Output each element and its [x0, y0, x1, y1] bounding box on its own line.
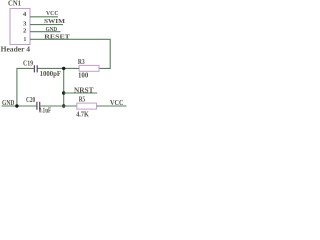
wire pin 3 to SWIM — [30, 24, 63, 26]
vertical bus wire NRST — [63, 68, 65, 106]
wire GND rail middle segment C20 to R5 — [40, 105, 77, 107]
svg-text:VCC: VCC — [110, 100, 124, 107]
junction node GND rail / C19 branch — [15, 104, 18, 107]
wire R5 to VCC — [97, 105, 127, 107]
svg-text:RESET: RESET — [44, 34, 70, 41]
wire C19 to R3 through node — [37, 67, 79, 69]
svg-text:100: 100 — [78, 73, 89, 80]
junction node at C19/R3 row — [62, 67, 65, 70]
wire NRST stub — [64, 92, 97, 94]
resistor R3 body — [79, 65, 99, 71]
svg-text:CN1: CN1 — [8, 0, 22, 7]
connector CN1 body — [10, 9, 30, 45]
svg-text:GND: GND — [2, 99, 14, 107]
wire pin 1 RESET to R3 — [30, 39, 110, 68]
svg-text:1: 1 — [24, 36, 27, 43]
capacitor C19 plates — [34, 65, 37, 72]
wire pin 4 to VCC — [30, 16, 58, 18]
svg-text:VCC: VCC — [46, 10, 59, 17]
svg-text:R3: R3 — [78, 59, 85, 66]
svg-text:C19: C19 — [23, 60, 34, 67]
svg-text:0.1uF: 0.1uF — [39, 107, 51, 114]
resistor R5 body — [77, 103, 97, 109]
junction node at NRST row — [62, 91, 65, 94]
svg-text:SWIM: SWIM — [44, 18, 66, 25]
junction node at GND rail — [62, 104, 65, 107]
wire pin 2 to GND — [30, 31, 61, 33]
svg-text:C20: C20 — [26, 97, 36, 104]
capacitor C20 plates — [37, 102, 40, 110]
wire GND rail left segment — [2, 105, 37, 107]
svg-text:R5: R5 — [79, 96, 86, 103]
svg-text:4.7K: 4.7K — [76, 111, 89, 119]
svg-text:1000pF: 1000pF — [40, 71, 61, 78]
svg-text:Header 4: Header 4 — [1, 45, 31, 53]
svg-text:GND: GND — [46, 26, 58, 33]
wire C19 left with corner down to GND rail — [17, 68, 35, 106]
svg-text:NRST: NRST — [74, 87, 94, 94]
